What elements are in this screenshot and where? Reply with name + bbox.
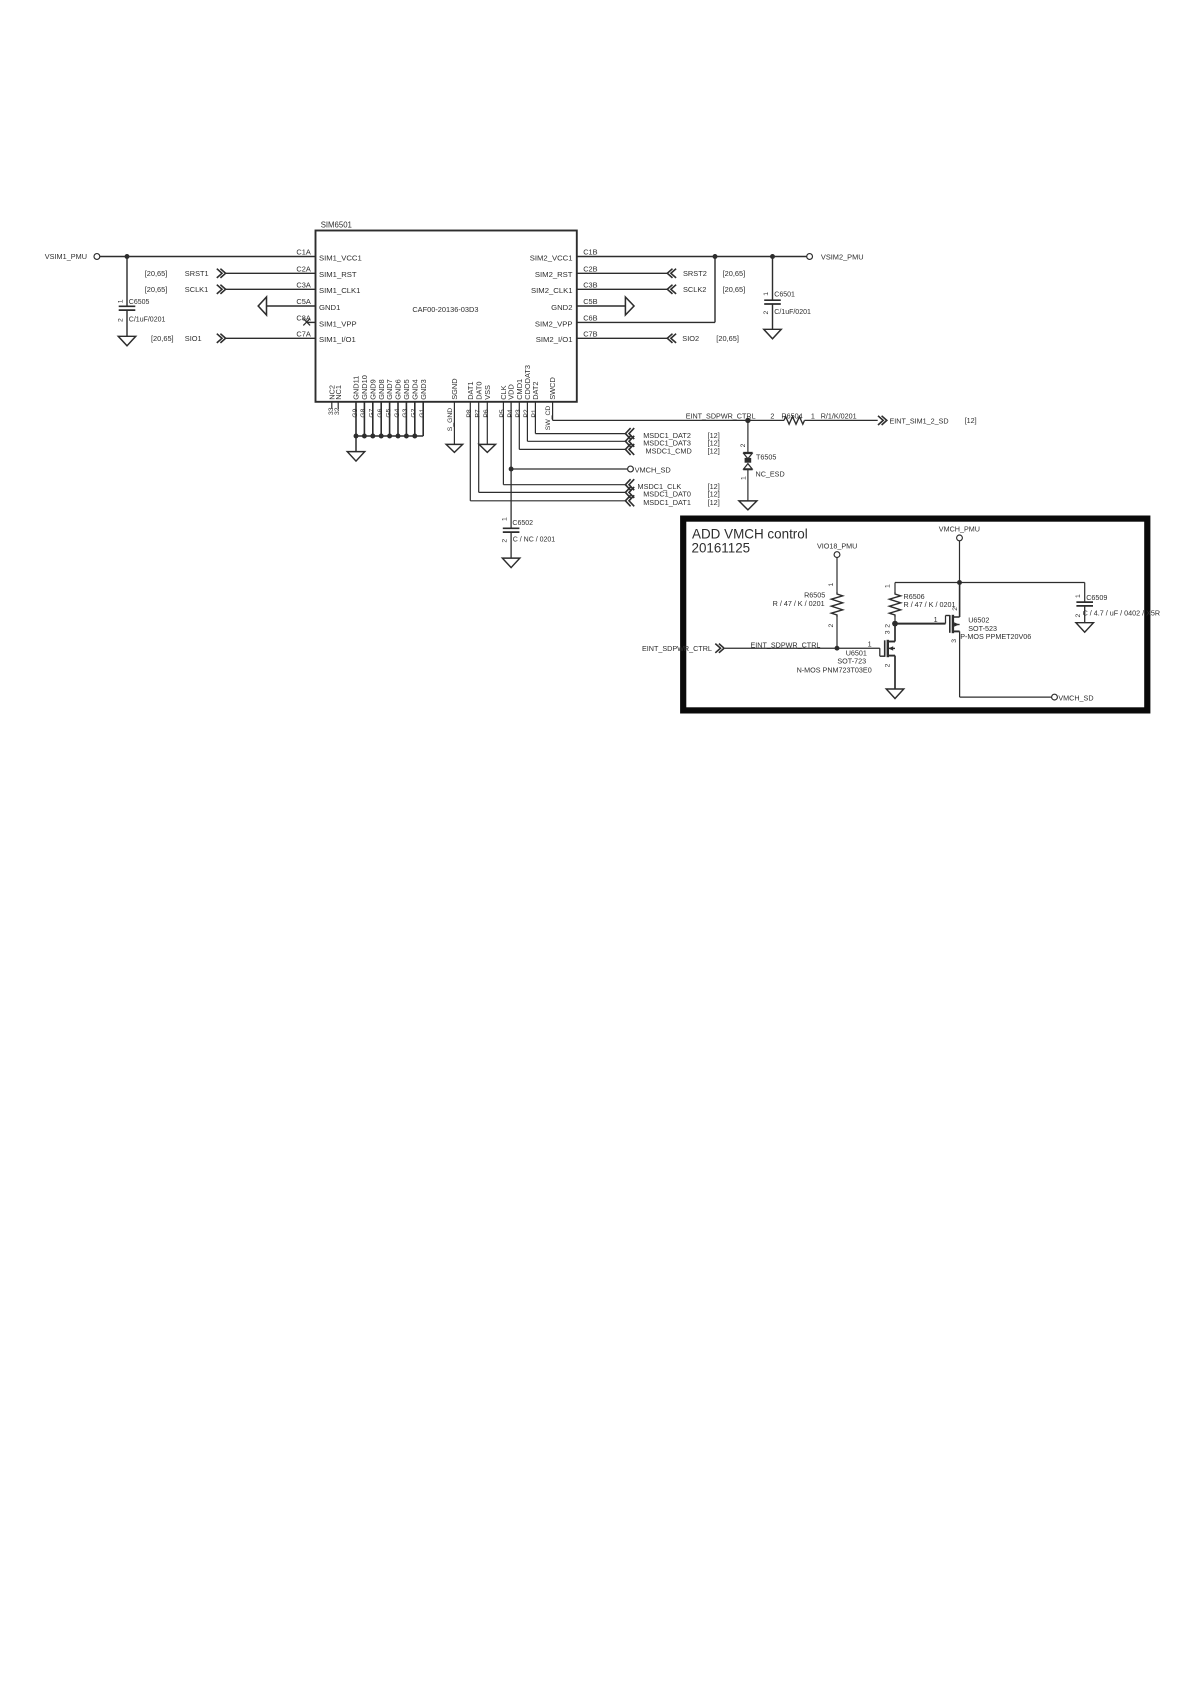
- svg-text:CAF00-20136-03D3: CAF00-20136-03D3: [412, 305, 478, 314]
- svg-text:1: 1: [811, 411, 815, 420]
- svg-text:2: 2: [740, 443, 747, 447]
- svg-text:[12]: [12]: [708, 447, 720, 456]
- svg-text:SIM2_I/O1: SIM2_I/O1: [536, 335, 573, 344]
- svg-text:C6B: C6B: [583, 314, 597, 323]
- svg-text:[20,65]: [20,65]: [151, 334, 174, 343]
- svg-text:SIM1_VCC1: SIM1_VCC1: [319, 253, 362, 262]
- svg-text:2: 2: [770, 411, 774, 420]
- svg-text:N-MOS PNM723T03E0: N-MOS PNM723T03E0: [797, 665, 872, 674]
- svg-text:[20,65]: [20,65]: [723, 285, 746, 294]
- svg-text:P1: P1: [531, 409, 538, 418]
- svg-text:[20,65]: [20,65]: [723, 269, 746, 278]
- svg-text:32: 32: [334, 407, 341, 415]
- svg-text:SGND: SGND: [450, 378, 459, 399]
- svg-text:C2A: C2A: [296, 265, 310, 274]
- svg-text:SCLK1: SCLK1: [185, 285, 208, 294]
- svg-text:SIM1_VPP: SIM1_VPP: [319, 319, 357, 328]
- svg-text:SRST2: SRST2: [683, 269, 707, 278]
- svg-text:VSIM2_PMU: VSIM2_PMU: [821, 253, 864, 262]
- svg-text:1: 1: [828, 583, 835, 587]
- svg-text:MSDC1_DAT1: MSDC1_DAT1: [643, 498, 691, 507]
- svg-text:G9: G9: [352, 408, 359, 417]
- svg-text:NC1: NC1: [334, 385, 343, 400]
- svg-text:[20,65]: [20,65]: [145, 269, 168, 278]
- svg-text:2: 2: [828, 624, 835, 628]
- svg-text:G5: G5: [385, 408, 392, 417]
- svg-text:C6505: C6505: [129, 299, 150, 306]
- svg-text:T6505: T6505: [756, 453, 776, 462]
- svg-text:EINT_SDPWR_CTRL: EINT_SDPWR_CTRL: [751, 641, 821, 650]
- svg-text:DAT2: DAT2: [531, 381, 540, 399]
- svg-text:VMCH_SD: VMCH_SD: [1058, 693, 1093, 702]
- svg-text:VSIM1_PMU: VSIM1_PMU: [45, 252, 87, 261]
- svg-text:P5: P5: [499, 409, 506, 418]
- svg-text:P2: P2: [523, 409, 530, 418]
- svg-text:1: 1: [501, 517, 508, 521]
- svg-text:2: 2: [117, 318, 124, 322]
- svg-text:VSS: VSS: [483, 385, 492, 400]
- svg-text:VMCH_SD: VMCH_SD: [635, 465, 671, 474]
- svg-text:2: 2: [501, 539, 508, 543]
- svg-text:[20,65]: [20,65]: [145, 285, 168, 294]
- svg-text:SIM2_CLK1: SIM2_CLK1: [531, 286, 572, 295]
- svg-text:C6501: C6501: [774, 292, 795, 299]
- svg-text:3: 3: [951, 639, 958, 643]
- svg-text:C1B: C1B: [583, 248, 597, 257]
- svg-text:20161125: 20161125: [692, 540, 751, 555]
- svg-text:2: 2: [884, 624, 891, 628]
- svg-text:1: 1: [1075, 594, 1082, 598]
- svg-text:1: 1: [740, 476, 747, 480]
- svg-text:SIM2_RST: SIM2_RST: [535, 270, 573, 279]
- svg-text:1: 1: [868, 639, 872, 648]
- svg-text:C/1uF/0201: C/1uF/0201: [774, 309, 811, 316]
- svg-text:SIM1_I/O1: SIM1_I/O1: [319, 335, 356, 344]
- svg-text:P7: P7: [475, 409, 482, 418]
- svg-text:1: 1: [934, 615, 938, 624]
- svg-text:[20,65]: [20,65]: [716, 334, 739, 343]
- svg-text:C / 4.7 / uF / 0402 / X5R: C / 4.7 / uF / 0402 / X5R: [1083, 609, 1161, 618]
- svg-text:S_GND: S_GND: [447, 408, 454, 432]
- svg-text:MSDC1_CMD: MSDC1_CMD: [646, 447, 692, 456]
- svg-text:C7A: C7A: [296, 330, 310, 339]
- svg-text:C1A: C1A: [296, 248, 310, 257]
- svg-text:C6509: C6509: [1086, 593, 1107, 602]
- svg-text:[12]: [12]: [708, 498, 720, 507]
- svg-text:SIM1_RST: SIM1_RST: [319, 270, 357, 279]
- svg-text:ADD VMCH control: ADD VMCH control: [692, 526, 808, 541]
- svg-text:R / 47 / K / 0201: R / 47 / K / 0201: [904, 600, 956, 609]
- svg-text:SIM2_VCC1: SIM2_VCC1: [530, 253, 573, 262]
- svg-text:G4: G4: [394, 408, 401, 417]
- svg-text:G3: G3: [402, 408, 409, 417]
- svg-text:C3A: C3A: [296, 281, 310, 290]
- svg-text:P3: P3: [515, 409, 522, 418]
- svg-text:C7B: C7B: [583, 330, 597, 339]
- svg-text:R/1/K/0201: R/1/K/0201: [821, 411, 857, 420]
- svg-text:G7: G7: [369, 408, 376, 417]
- svg-text:SRST1: SRST1: [185, 269, 209, 278]
- svg-text:VIO18_PMU: VIO18_PMU: [817, 541, 857, 550]
- svg-text:C3B: C3B: [583, 281, 597, 290]
- svg-text:EINT_SIM1_2_SD: EINT_SIM1_2_SD: [890, 417, 949, 426]
- svg-text:P6: P6: [483, 409, 490, 418]
- svg-text:C5A: C5A: [296, 297, 310, 306]
- svg-text:C5B: C5B: [583, 297, 597, 306]
- svg-text:2: 2: [1075, 614, 1082, 618]
- svg-text:1: 1: [884, 584, 891, 588]
- svg-text:SIO1: SIO1: [185, 334, 202, 343]
- svg-text:1: 1: [117, 299, 124, 303]
- svg-text:SIM2_VPP: SIM2_VPP: [535, 319, 573, 328]
- svg-text:C6502: C6502: [512, 520, 533, 527]
- svg-text:SIM1_CLK1: SIM1_CLK1: [319, 286, 360, 295]
- svg-text:3: 3: [884, 630, 891, 634]
- svg-text:2: 2: [763, 311, 770, 315]
- svg-text:R / 47 / K / 0201: R / 47 / K / 0201: [773, 599, 825, 608]
- svg-text:G2: G2: [411, 408, 418, 417]
- svg-text:NC_ESD: NC_ESD: [756, 470, 785, 479]
- svg-text:P8: P8: [466, 409, 473, 418]
- svg-text:SW_CD: SW_CD: [545, 406, 552, 431]
- svg-text:C2B: C2B: [583, 265, 597, 274]
- svg-text:GND2: GND2: [551, 303, 572, 312]
- svg-text:EINT_SDPWR_CTRL: EINT_SDPWR_CTRL: [686, 411, 756, 420]
- svg-text:G8: G8: [360, 408, 367, 417]
- svg-text:C / NC / 0201: C / NC / 0201: [513, 536, 556, 543]
- svg-text:C8A: C8A: [296, 314, 310, 323]
- svg-text:P4: P4: [507, 409, 514, 418]
- svg-text:C/1uF/0201: C/1uF/0201: [129, 317, 166, 324]
- svg-text:EINT_SDPWR_CTRL: EINT_SDPWR_CTRL: [642, 644, 712, 653]
- svg-text:1: 1: [763, 292, 770, 296]
- svg-text:GND1: GND1: [319, 303, 340, 312]
- svg-text:GND3: GND3: [419, 379, 428, 400]
- svg-text:SWCD: SWCD: [548, 377, 557, 400]
- svg-text:2: 2: [952, 607, 959, 611]
- svg-text:P-MOS PPMET20V06: P-MOS PPMET20V06: [960, 632, 1031, 641]
- svg-text:[12]: [12]: [965, 416, 977, 425]
- svg-text:SCLK2: SCLK2: [683, 285, 706, 294]
- svg-text:SIM6501: SIM6501: [321, 220, 352, 229]
- svg-text:G6: G6: [377, 408, 384, 417]
- svg-text:2: 2: [884, 663, 891, 667]
- svg-text:G1: G1: [419, 408, 426, 417]
- svg-text:VMCH_PMU: VMCH_PMU: [939, 524, 980, 533]
- svg-text:SIO2: SIO2: [682, 334, 699, 343]
